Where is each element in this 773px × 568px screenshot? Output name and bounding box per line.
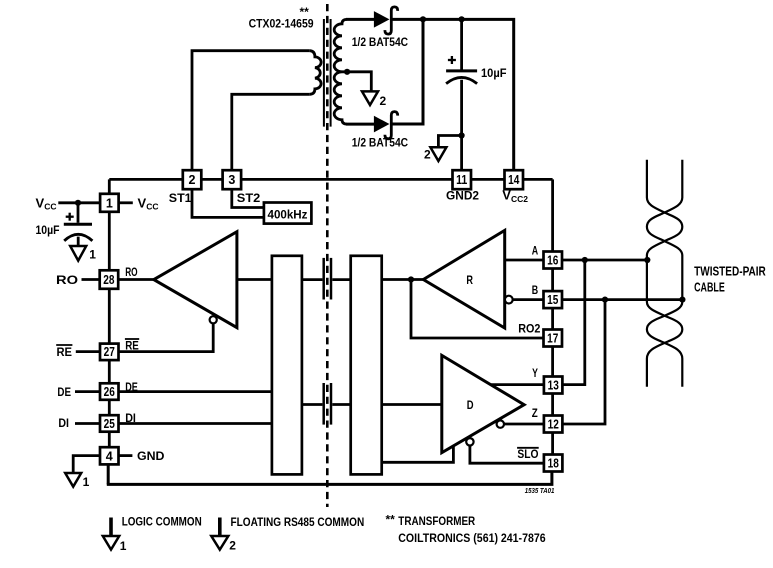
decoder block right xyxy=(351,256,382,475)
pin box 15 xyxy=(544,291,563,308)
wire pin 2 to primary top xyxy=(192,51,309,171)
label ST2 (pin 3) xyxy=(237,191,261,205)
RO buffer output wire to encoder xyxy=(237,278,272,281)
label GND2 (pin 11) xyxy=(446,189,479,203)
svg-text:26: 26 xyxy=(104,385,115,399)
wire D output Y to pin 13 xyxy=(491,383,544,386)
wire Y to A link xyxy=(563,260,585,385)
capacitor C2 10uF top lead xyxy=(460,19,463,69)
svg-text:1535 TA01: 1535 TA01 xyxy=(525,488,555,495)
svg-text:3: 3 xyxy=(228,173,235,187)
transformer T1 core xyxy=(324,19,331,127)
legend label FLOATING RS485 COMMON xyxy=(231,515,365,529)
label VCC2 (pin 14) xyxy=(502,188,528,204)
label RE (outside, overline) xyxy=(56,345,72,359)
svg-text:**: ** xyxy=(300,5,310,19)
svg-text:DE: DE xyxy=(125,380,138,394)
svg-text:CC: CC xyxy=(44,201,56,211)
wire secondary bottom lead to diode D2 xyxy=(346,123,375,126)
right IC bus xyxy=(551,179,554,463)
transformer T1 primary winding xyxy=(309,51,321,95)
svg-text:COILTRONICS (561) 241-7876: COILTRONICS (561) 241-7876 xyxy=(398,531,546,545)
wire VCC input stub xyxy=(58,201,100,204)
wire pin 28 to RO buffer xyxy=(118,278,154,281)
svg-text:12: 12 xyxy=(548,418,559,432)
junction center tap xyxy=(344,69,350,75)
transformer T1 secondary winding xyxy=(334,19,347,124)
transformer T1 label CTX02-14659 xyxy=(249,5,314,31)
label DE (outside) xyxy=(57,385,71,399)
svg-text:DI: DI xyxy=(58,416,69,430)
encoder block left xyxy=(272,256,302,475)
svg-text:V: V xyxy=(36,195,45,210)
SLO bubble on driver D xyxy=(466,438,473,445)
svg-text:RO2: RO2 xyxy=(518,321,540,335)
label VCC (outside) xyxy=(36,195,57,211)
svg-text:1: 1 xyxy=(83,475,90,489)
label 1/2 BAT54C (bottom) xyxy=(352,136,409,150)
pin box 18 xyxy=(544,455,563,472)
wire pin 26 to encoder DE xyxy=(118,390,272,393)
svg-text:RO: RO xyxy=(125,265,137,279)
receiver R triangle xyxy=(423,230,504,328)
wire pin 3 to 400kHz oscillator xyxy=(232,189,264,207)
junction C2 top xyxy=(459,16,465,22)
svg-text:D: D xyxy=(467,398,474,412)
legend ground 2 symbol xyxy=(211,518,236,553)
pin box 14 xyxy=(505,170,524,189)
label DE (pin 26) xyxy=(125,380,138,394)
note transformer source xyxy=(386,513,546,546)
junction B at cable xyxy=(679,297,685,303)
svg-text:10µF: 10µF xyxy=(481,66,507,80)
wire pin 3 to primary bottom xyxy=(232,94,309,170)
wire RO input stub xyxy=(82,278,101,281)
pin box 26 xyxy=(100,383,119,400)
legend label LOGIC COMMON xyxy=(122,514,202,528)
capacitor C1 plates and plus xyxy=(64,213,93,241)
svg-text:27: 27 xyxy=(104,345,115,359)
label ST1 (pin 2) xyxy=(169,191,192,205)
svg-text:25: 25 xyxy=(104,417,115,431)
wire pin 25 to encoder DI xyxy=(118,422,272,425)
svg-text:1: 1 xyxy=(120,539,127,553)
pin box 17 xyxy=(544,330,563,347)
wire pin 15 to cable wire B xyxy=(562,298,683,301)
pin box 12 xyxy=(544,416,563,433)
coupling capacitor pair bottom (data path) xyxy=(302,383,351,425)
label A (pin 16) xyxy=(532,244,539,258)
wire DI input stub xyxy=(75,422,100,425)
ground 2 (center tap) xyxy=(362,91,387,107)
wire RO2 branch to pin 17 xyxy=(411,280,543,339)
wire secondary top lead to diode D1 xyxy=(346,18,375,21)
pin box 3 xyxy=(223,170,242,189)
driver D triangle xyxy=(442,355,524,452)
wire Z bubble to pin 12 xyxy=(504,423,543,426)
junction B / Z xyxy=(602,297,608,303)
label DI (pin 25) xyxy=(125,411,136,425)
svg-text:1: 1 xyxy=(89,247,96,261)
label 10uF (C2) xyxy=(481,66,507,80)
wire pin 4 to GND label xyxy=(118,454,132,457)
svg-text:15: 15 xyxy=(547,293,558,307)
svg-text:1/2 BAT54C: 1/2 BAT54C xyxy=(352,35,409,49)
ground 1 (C1) xyxy=(70,246,96,261)
wire pin 4 to ground 1 xyxy=(73,456,100,473)
svg-text:1/2 BAT54C: 1/2 BAT54C xyxy=(352,136,409,150)
wire pin 1 to VCC label xyxy=(119,201,133,204)
label TWISTED-PAIR CABLE xyxy=(694,264,766,295)
label B (pin 15) xyxy=(532,283,539,297)
label SLO (pin 18, overline) xyxy=(517,447,539,461)
diode D2 1/2 BAT54C bottom xyxy=(374,112,397,139)
pin box 1 xyxy=(100,194,119,212)
svg-text:GND2: GND2 xyxy=(446,189,479,203)
label RO2 (pin 17) xyxy=(518,321,540,335)
RE bubble on RO buffer xyxy=(210,316,217,323)
svg-text:4: 4 xyxy=(106,449,113,463)
svg-text:28: 28 xyxy=(103,273,114,287)
ground 1 (pin 4) xyxy=(65,473,89,489)
svg-text:LOGIC COMMON: LOGIC COMMON xyxy=(122,514,202,528)
svg-text:RE: RE xyxy=(57,345,73,359)
svg-text:GND: GND xyxy=(137,449,165,463)
twisted pair cable right wire xyxy=(647,160,682,387)
svg-text:400kHz: 400kHz xyxy=(268,208,308,222)
pin box 4 xyxy=(100,447,119,464)
wire Z to B link xyxy=(563,300,605,424)
svg-text:A: A xyxy=(532,244,539,258)
label Z (pin 12) xyxy=(532,406,538,420)
RO buffer triangle xyxy=(154,232,237,328)
ground 2 (supply) xyxy=(424,147,446,161)
junction diode outputs xyxy=(420,16,426,22)
legend ground 1 symbol xyxy=(103,518,127,554)
pin box 11 xyxy=(453,170,472,189)
svg-text:13: 13 xyxy=(548,379,559,393)
svg-text:1: 1 xyxy=(106,196,113,210)
wire pin 16 to cable wire A xyxy=(562,259,647,262)
capacitor C2 plates and plus xyxy=(446,56,477,84)
Z bubble on driver D xyxy=(497,420,504,427)
oscillator 400kHz box xyxy=(264,203,312,224)
pin box 28 xyxy=(100,270,119,289)
isolation barrier dashed line xyxy=(326,4,329,507)
svg-text:FLOATING RS485 COMMON: FLOATING RS485 COMMON xyxy=(231,515,365,529)
svg-text:**: ** xyxy=(386,513,396,527)
junction RO / RO2 xyxy=(408,276,414,282)
wire driver enable from decoder xyxy=(381,446,454,462)
transformer T1 center tap wire xyxy=(342,72,371,92)
svg-text:ST2: ST2 xyxy=(237,191,261,205)
svg-text:11: 11 xyxy=(456,173,467,187)
svg-text:R: R xyxy=(466,273,473,287)
svg-text:CC: CC xyxy=(146,201,158,211)
wire B bubble to pin 15 xyxy=(513,298,544,301)
wire decoder to R receiver input xyxy=(382,278,424,281)
svg-text:ST1: ST1 xyxy=(169,191,192,205)
wire pin 27 to RE bubble xyxy=(118,323,213,351)
label VCC (pin 1) xyxy=(138,195,159,211)
wire decoder to D driver input xyxy=(382,403,442,406)
junction C2 bottom / GND2 xyxy=(459,132,465,138)
svg-text:B: B xyxy=(532,283,539,297)
wire SLO bubble to pin 18 xyxy=(470,446,543,464)
wire D1 cathode to VCC2 rail xyxy=(391,19,513,170)
svg-text:14: 14 xyxy=(508,173,519,187)
label RO (outside) xyxy=(56,273,78,287)
B bubble on receiver R xyxy=(505,296,513,304)
capacitor C1 lead to ground 1 xyxy=(77,237,80,246)
pin box 27 xyxy=(100,344,119,361)
svg-text:CABLE: CABLE xyxy=(694,279,725,294)
junction VCC / C1 xyxy=(75,200,81,206)
svg-text:TWISTED-PAIR: TWISTED-PAIR xyxy=(694,264,766,279)
label GND (pin 4) xyxy=(137,449,165,463)
svg-text:TRANSFORMER: TRANSFORMER xyxy=(398,514,475,528)
svg-text:CC2: CC2 xyxy=(511,194,528,204)
label 10uF (C1) xyxy=(36,223,60,237)
label DI (outside) xyxy=(58,416,69,430)
svg-text:17: 17 xyxy=(547,332,558,346)
label RE (pin 27, overline) xyxy=(125,338,139,352)
junction A / Y xyxy=(582,257,588,263)
label 1/2 BAT54C (top) xyxy=(352,35,409,49)
svg-text:2: 2 xyxy=(229,539,236,553)
svg-text:Z: Z xyxy=(532,406,538,420)
junction A at cable xyxy=(644,257,650,263)
pin box 16 xyxy=(544,252,563,269)
pin box 25 xyxy=(100,415,119,432)
label Y (pin 13) xyxy=(532,366,538,380)
diode D1 1/2 BAT54C top xyxy=(374,7,397,34)
bottom rail xyxy=(107,470,552,484)
svg-text:DE: DE xyxy=(57,385,71,399)
svg-text:18: 18 xyxy=(548,457,559,471)
note 1535 TA01 xyxy=(525,488,555,495)
pin box 13 xyxy=(544,377,563,394)
top rail ST1-ST2-GND2-VCC2 xyxy=(109,178,552,181)
svg-text:V: V xyxy=(502,188,511,203)
svg-text:V: V xyxy=(138,195,147,210)
capacitor C2 bottom lead to pin 11 xyxy=(460,80,463,170)
wire DE input stub xyxy=(75,390,100,393)
wire R output A to pin 16 xyxy=(505,259,544,262)
svg-text:SLO: SLO xyxy=(517,447,538,461)
left IC bus xyxy=(108,179,111,456)
capacitor C1 10uF lead xyxy=(77,203,80,223)
svg-text:2: 2 xyxy=(424,148,431,162)
svg-text:DI: DI xyxy=(125,411,136,425)
wire RE input stub xyxy=(76,350,100,353)
svg-text:16: 16 xyxy=(547,254,558,268)
svg-text:10µF: 10µF xyxy=(36,223,60,237)
svg-text:RE: RE xyxy=(125,338,139,352)
wire D2 cathode up to D1 output node xyxy=(391,19,423,124)
label RO (pin 28) xyxy=(125,265,137,279)
wire to ground 2 (supply) xyxy=(438,136,461,148)
wire pin 4 to bottom rail xyxy=(107,464,110,484)
svg-text:2: 2 xyxy=(380,94,387,108)
wire pin 2 to 400kHz oscillator xyxy=(192,189,264,217)
twisted pair cable left wire xyxy=(647,160,682,387)
pin box 2 xyxy=(183,170,202,189)
svg-text:2: 2 xyxy=(189,173,196,187)
svg-text:RO: RO xyxy=(56,273,78,287)
svg-text:Y: Y xyxy=(532,366,538,380)
coupling capacitor pair top (RO path) xyxy=(302,258,351,300)
